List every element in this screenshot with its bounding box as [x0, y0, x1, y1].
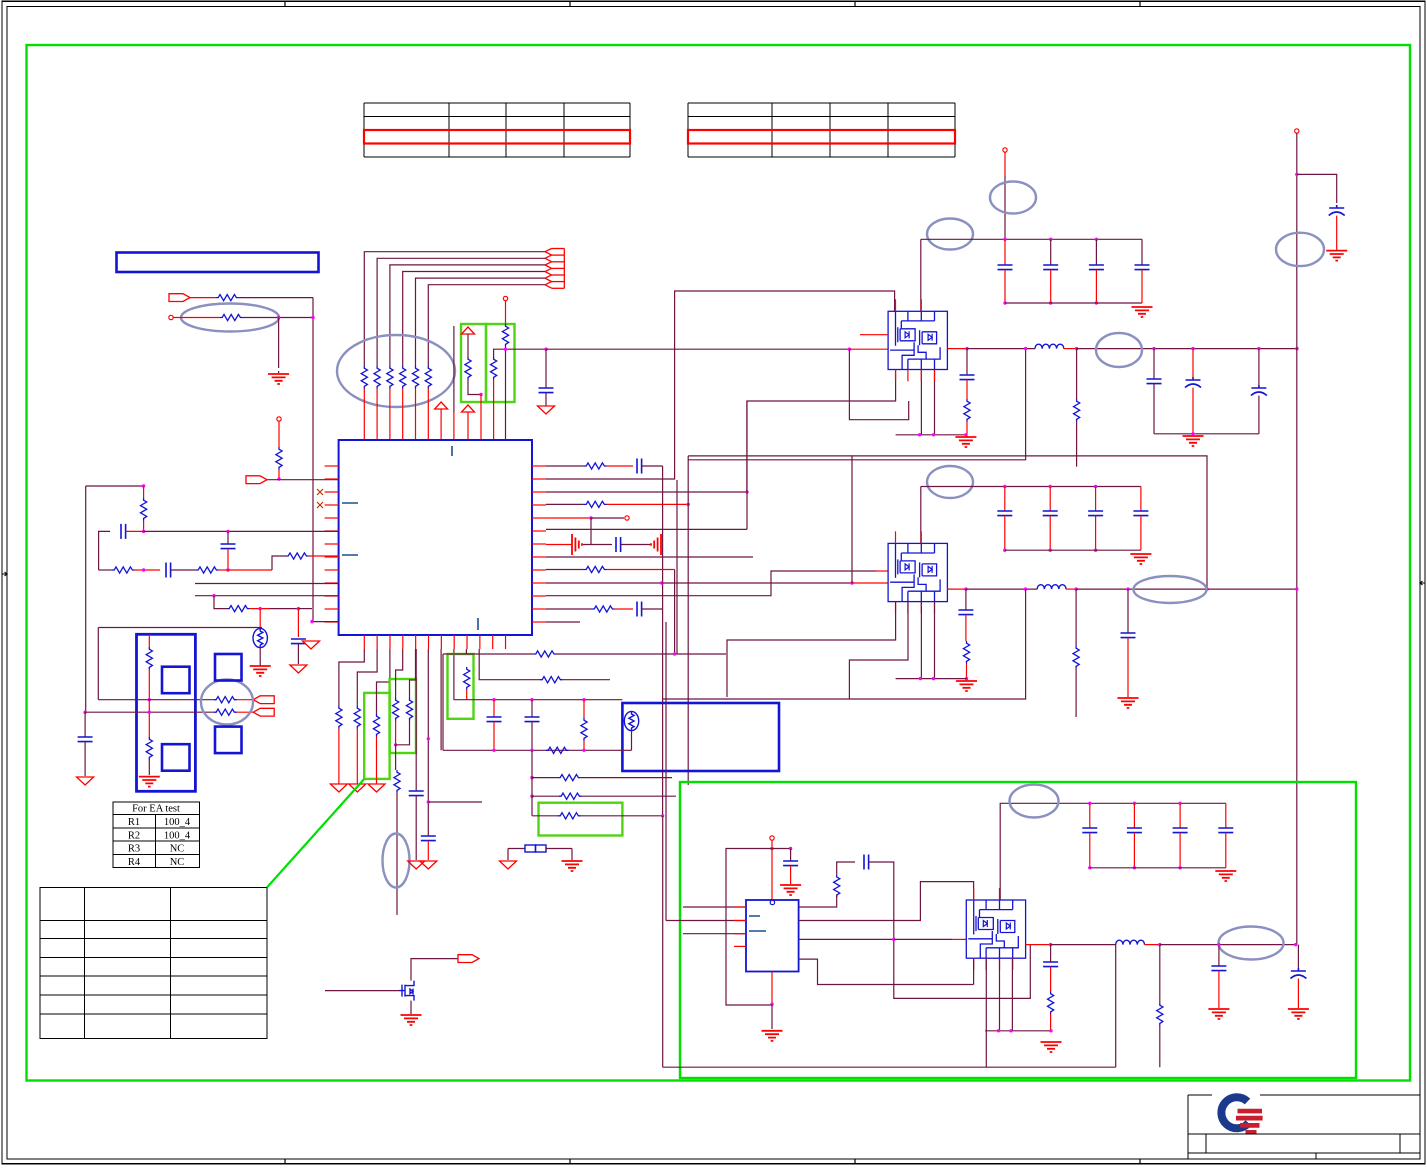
- earth ground G1: [268, 371, 289, 384]
- ground GA6: [368, 784, 385, 792]
- net D10: [465, 649, 467, 654]
- net R6 b: [583, 544, 612, 546]
- net SW1 to block: [849, 348, 888, 350]
- bus wire B3: [390, 265, 545, 366]
- junction n58: [892, 938, 895, 941]
- IC U4 top notch: [770, 900, 774, 904]
- junction n40: [394, 743, 397, 746]
- inductor L3: [1116, 940, 1145, 944]
- junction n4: [479, 393, 482, 396]
- ground GB2: [250, 666, 271, 676]
- wire b3c2 bot: [1179, 833, 1181, 868]
- wire R43 dn: [1075, 669, 1077, 718]
- net blk2 brow: [896, 678, 967, 680]
- junction n18: [850, 581, 853, 584]
- junction n64: [997, 1029, 1000, 1032]
- wire TH1 to gnd: [259, 648, 261, 666]
- junction n38: [919, 677, 922, 680]
- blue title box: [117, 253, 319, 273]
- net u4 in1: [683, 906, 746, 908]
- resistor RN2: [374, 366, 380, 389]
- wire T1 to R11: [173, 317, 220, 319]
- svg-text:100_4: 100_4: [164, 830, 191, 841]
- net blk1 b1: [747, 370, 896, 493]
- net y654 b: [506, 653, 533, 655]
- junction b3s1: [1133, 866, 1136, 869]
- net fuse b: [546, 848, 572, 850]
- capacitor C17: [421, 836, 436, 841]
- resistor R53: [393, 698, 399, 721]
- junction n9: [226, 568, 229, 571]
- resistor R52: [373, 714, 379, 737]
- highlight box HB1b: [486, 324, 515, 402]
- svg-text:For EA test: For EA test: [132, 804, 180, 815]
- wire b1c0 top: [1004, 239, 1006, 265]
- mosfet block U2: [888, 311, 947, 369]
- net blk1 brow: [896, 434, 966, 436]
- wire PW3 stub: [467, 412, 469, 440]
- buck3 cap gnd rail: [1090, 867, 1226, 869]
- wire out cap b: [1297, 945, 1299, 968]
- sheet zone tick top x=570: [569, 1, 571, 6]
- wire R23 to IC: [309, 555, 339, 557]
- wire R41 dn: [1076, 422, 1078, 467]
- highlight ellipse E7: [927, 466, 973, 498]
- junction n2b: [745, 490, 748, 493]
- net FB4: [852, 456, 1207, 589]
- highlight ellipse E12: [1219, 927, 1284, 960]
- ground GB7: [1130, 554, 1151, 564]
- net D6: [427, 649, 429, 836]
- title block frame: [1188, 1095, 1420, 1159]
- wire r81 dn: [1050, 1014, 1052, 1031]
- net FB3: [688, 349, 1025, 460]
- junction n19: [848, 348, 851, 351]
- wire b3c1 top: [1133, 803, 1135, 828]
- sheet zone tick left: [2, 572, 7, 576]
- junction b3s2: [1178, 866, 1181, 869]
- power flag PW2: [462, 327, 475, 334]
- junction b3r2: [1178, 802, 1181, 805]
- wire b1c1 bot: [1050, 270, 1052, 303]
- resistor R30: [584, 463, 607, 469]
- net D1: [339, 649, 364, 706]
- wire n16 down: [590, 518, 592, 545]
- junction n29: [964, 433, 967, 436]
- resistor R72: [146, 737, 152, 760]
- IC U1 bottom pins: [364, 635, 505, 649]
- net u4 in2: [666, 920, 746, 922]
- net y654 c: [556, 653, 726, 655]
- net row y570 c: [171, 569, 196, 571]
- resistor R10: [216, 295, 239, 301]
- wire b2c3 bot: [1140, 516, 1142, 551]
- terminal T7: [770, 836, 774, 840]
- net x662 long: [662, 654, 664, 816]
- resistor R73: [214, 709, 237, 715]
- wire n27 down: [1258, 349, 1260, 385]
- net R5: [546, 528, 747, 530]
- wire c26 dn: [1297, 979, 1299, 1008]
- junction n54: [83, 711, 86, 714]
- resistor R57: [534, 651, 557, 657]
- wire R51 dn: [356, 729, 358, 785]
- net R4 b: [591, 517, 624, 519]
- wire r82 dn: [1159, 1026, 1161, 1068]
- logo stripes: [1236, 1109, 1263, 1134]
- junction n46: [582, 698, 585, 701]
- capacitor C7: [616, 537, 621, 552]
- junction n16: [589, 516, 592, 519]
- resistor R56: [464, 667, 470, 690]
- ground GA4: [330, 784, 347, 792]
- highlight box HB1a: [461, 324, 486, 402]
- net R9 c: [852, 582, 889, 584]
- ground GB8: [956, 681, 977, 691]
- buck1 out c: [1064, 348, 1077, 350]
- net R8 down: [674, 569, 676, 571]
- capacitor CB21: [1043, 511, 1058, 516]
- buck2 out b: [966, 588, 1037, 590]
- net y777 b: [581, 777, 673, 779]
- resistor R51: [354, 706, 360, 729]
- wire n24 down: [1076, 349, 1078, 399]
- resistor R22: [196, 567, 219, 573]
- highlight ellipse E2: [337, 335, 455, 407]
- sheet zone tick top x=285: [284, 1, 286, 6]
- capacitor C22: [783, 861, 798, 866]
- net vertical x313: [312, 298, 314, 622]
- resistor R62: [559, 793, 582, 799]
- net blk2 fb: [663, 589, 1026, 699]
- junction n49: [582, 749, 585, 752]
- capacitor CB23: [1133, 511, 1148, 516]
- wire P1 to R10: [190, 297, 216, 299]
- ground GB6: [1326, 251, 1347, 261]
- bus wire B5: [416, 278, 546, 366]
- capacitor C16: [1121, 633, 1136, 638]
- wire b3c0 bot: [1089, 833, 1091, 868]
- net y796 b: [582, 795, 677, 797]
- ground GA7: [420, 861, 437, 869]
- wire cap c19: [493, 700, 495, 717]
- resistor R55: [406, 698, 412, 721]
- capacitor CB13: [1135, 265, 1150, 270]
- resistor R42: [963, 641, 969, 664]
- wire C1 to gnd: [545, 393, 547, 406]
- buck2 input rail: [921, 486, 1141, 488]
- wire T5 down b: [1004, 176, 1006, 239]
- net D4: [396, 649, 403, 698]
- capacitor CB20: [997, 511, 1012, 516]
- net D7: [415, 649, 417, 791]
- fuse F1: [525, 845, 546, 852]
- wire R11 to junction: [243, 317, 314, 319]
- capacitor C25: [1211, 966, 1226, 971]
- wire n35 down: [1127, 589, 1129, 633]
- wire tr top: [148, 634, 150, 647]
- resistor R43: [1073, 646, 1079, 669]
- junction n59: [770, 1003, 773, 1006]
- capacitor C8: [637, 602, 642, 617]
- wire n8 to C3: [227, 531, 229, 544]
- ground GA8: [408, 861, 425, 869]
- net D5 b: [396, 721, 410, 745]
- IC U1: [339, 440, 532, 635]
- capacitor CB30: [1082, 828, 1097, 833]
- net SW1 down: [849, 349, 908, 420]
- highlight ellipse E9: [383, 834, 410, 888]
- wire b2c0 top: [1004, 487, 1006, 512]
- wire RN5 to IC: [415, 389, 417, 441]
- ground GB13: [780, 885, 801, 895]
- wire n12 to TH1: [259, 609, 261, 628]
- capacitor C19: [487, 717, 502, 722]
- capacitor CB33: [1218, 828, 1233, 833]
- wire C3 to n9: [227, 549, 229, 570]
- bus wire B6: [428, 285, 545, 366]
- net prim1: [98, 699, 214, 701]
- resistor R12: [276, 447, 282, 470]
- capacitor C1: [539, 388, 554, 393]
- net R0 c: [642, 465, 663, 467]
- terminal T3: [503, 296, 507, 300]
- junction b2s0: [1003, 549, 1006, 552]
- IC U1 right pins: [532, 466, 546, 622]
- resistor R61: [558, 775, 581, 781]
- net R3 a: [546, 503, 584, 505]
- net row y570 b: [135, 569, 161, 571]
- wire C16 dn: [1127, 638, 1129, 697]
- net row y570 a: [99, 569, 112, 571]
- wire R12 to pin: [278, 470, 280, 480]
- winding square W1: [162, 667, 190, 694]
- net u4 out1: [799, 882, 974, 921]
- capacitor C12 pol: [1185, 377, 1201, 388]
- junction b2r2: [1094, 485, 1097, 488]
- capacitor C15: [958, 610, 973, 615]
- sheet zone tick top x=855: [854, 1, 856, 6]
- wire b1c1 top: [1050, 239, 1052, 265]
- highlight ellipse E4: [927, 219, 973, 250]
- junction n53: [148, 698, 151, 701]
- junction n20: [918, 433, 921, 436]
- net R8 b: [607, 569, 675, 571]
- wire C13 dn: [1258, 396, 1260, 434]
- wire n34 down: [1075, 589, 1077, 646]
- net R11r a: [546, 608, 592, 610]
- net blk3 b4: [1011, 959, 1013, 1031]
- junction b1s1: [1049, 301, 1052, 304]
- net R6 a: [546, 544, 572, 546]
- net blk2 b1: [727, 602, 896, 697]
- junction n11: [212, 594, 215, 597]
- net TL top: [98, 627, 262, 629]
- junction n12: [259, 607, 262, 610]
- wire R50 dn: [338, 729, 340, 785]
- winding square W4: [215, 727, 242, 754]
- capacitor C21: [78, 737, 93, 742]
- junction n2: [311, 316, 314, 319]
- buck1 cap gnd rail: [1005, 302, 1142, 304]
- thermistor TH1: [253, 628, 267, 647]
- net fuse gnd l: [507, 849, 509, 861]
- sheet zone tick right: [1420, 581, 1425, 585]
- junction nFB4: [1205, 587, 1208, 590]
- junction n21: [932, 433, 935, 436]
- wire c22 a: [790, 849, 792, 862]
- wire C1 up: [545, 349, 547, 388]
- junction b1s0: [1003, 301, 1006, 304]
- net L1 top: [86, 485, 144, 487]
- U5 red pin stubs: [974, 888, 1013, 970]
- junction n66: [1049, 1029, 1052, 1032]
- capacitor CB11: [1043, 265, 1058, 270]
- wire C17 dn: [427, 841, 429, 860]
- terminal T6: [1295, 129, 1299, 133]
- highlight box HB5: [539, 803, 623, 836]
- junction n32: [964, 587, 967, 590]
- ground GB5: [1183, 436, 1204, 446]
- junction n65: [1009, 1029, 1012, 1032]
- resistor R14: [491, 357, 497, 380]
- wire gpio in: [267, 479, 339, 481]
- ground GB3: [1132, 307, 1153, 317]
- svg-text:R1: R1: [128, 817, 140, 828]
- wire b3c0 top: [1089, 803, 1091, 828]
- highlight ellipse E11: [1010, 785, 1059, 818]
- svg-text:100_4: 100_4: [164, 817, 191, 828]
- terminal T5: [1003, 148, 1007, 152]
- net R2: [546, 491, 747, 493]
- U3 red pin stubs: [896, 531, 935, 613]
- IC U1 pin1 marks: [342, 446, 478, 630]
- junction n60: [1049, 943, 1052, 946]
- input arrow P2: [246, 476, 267, 484]
- power flag PW4: [303, 641, 320, 649]
- net c22 br: [772, 848, 791, 850]
- net blk2 b4: [934, 602, 936, 679]
- branch to C14: [1297, 174, 1337, 203]
- sheet zone tick top x=1140: [1139, 1, 1141, 6]
- buck1 out d: [1077, 348, 1297, 350]
- net D2: [357, 649, 377, 706]
- svg-text:NC: NC: [170, 857, 185, 868]
- net comp b: [869, 862, 1031, 998]
- net blk3 brow: [985, 1030, 1051, 1032]
- capacitor C3: [221, 544, 236, 549]
- ground GB12: [401, 1015, 422, 1025]
- junction n55: [148, 711, 151, 714]
- net u4 out2c: [952, 938, 966, 940]
- net D9: [453, 649, 455, 700]
- net x662 b: [662, 816, 664, 1067]
- net L1 vertical: [85, 486, 87, 712]
- junction n50: [530, 776, 533, 779]
- ground GB10: [562, 861, 583, 871]
- junction n37: [965, 677, 968, 680]
- sheet zone tick bottom x=1140: [1139, 1159, 1141, 1164]
- highlight ellipse E1: [181, 304, 279, 332]
- buck3 green frame: [680, 782, 1356, 1078]
- junction n42: [427, 800, 430, 803]
- buck2 rail to block: [920, 487, 922, 544]
- junction n7: [142, 530, 145, 533]
- wire lamp dn: [631, 731, 633, 751]
- resistor R50: [336, 706, 342, 729]
- net blk2 b2: [849, 602, 908, 699]
- wire b1c3 bot: [1141, 270, 1143, 303]
- junction b1s2: [1095, 301, 1098, 304]
- net blk3 b1: [973, 959, 975, 985]
- right bus: [1296, 133, 1298, 945]
- net R0 down: [662, 466, 664, 654]
- highlight ellipse E10: [201, 680, 253, 725]
- capacitor C24: [1043, 962, 1058, 967]
- power flag PW1: [435, 402, 448, 409]
- junction n31: [1295, 173, 1298, 176]
- junction n57: [789, 847, 792, 850]
- revision table 1: [364, 103, 630, 157]
- junction b2r0: [1003, 485, 1006, 488]
- net D8: [440, 649, 442, 750]
- net row y622: [312, 621, 339, 623]
- capacitor C11: [1147, 379, 1162, 384]
- junction n10: [142, 568, 145, 571]
- junction n13: [297, 607, 300, 610]
- no-connect X2: [317, 502, 323, 508]
- net x532: [531, 750, 533, 816]
- wire R13 bend: [468, 380, 481, 395]
- junction n43: [673, 652, 676, 655]
- resistor R13: [465, 357, 471, 380]
- wire b3c3 top: [1225, 803, 1227, 828]
- wire n1 down: [278, 318, 280, 369]
- junction b2s1: [1049, 549, 1052, 552]
- buck3 rail up: [1115, 945, 1117, 1068]
- buck2 out a: [947, 588, 966, 590]
- net row y596: [195, 595, 339, 597]
- lamp DS1: [624, 711, 638, 730]
- wire b3c2 top: [1179, 803, 1181, 828]
- capacitor C2: [121, 524, 126, 539]
- resistor R20: [141, 498, 147, 521]
- net blk1 b3: [934, 370, 936, 435]
- wire R40 gnd: [966, 422, 968, 438]
- junction n47: [492, 749, 495, 752]
- ground GA9: [500, 861, 517, 869]
- wire b2c1 top: [1049, 487, 1051, 512]
- wire b2c1 bot: [1049, 516, 1051, 551]
- buck1 out a: [947, 348, 967, 350]
- wire b1c0 bot: [1004, 270, 1006, 303]
- net row y531 to IC: [144, 530, 339, 532]
- svg-text:R4: R4: [128, 857, 141, 868]
- net R9 a: [546, 582, 662, 584]
- sheet zone tick bottom x=855: [854, 1159, 856, 1164]
- net R9 b: [662, 582, 852, 584]
- capacitor C10: [960, 375, 975, 380]
- net R3 b: [607, 503, 689, 505]
- wire C18 dn: [415, 796, 417, 860]
- wire out cap a: [1218, 945, 1220, 966]
- rail y700: [454, 699, 622, 701]
- resistor R71: [214, 697, 237, 703]
- ground GS2: [651, 534, 661, 555]
- net q1 gate: [325, 990, 399, 992]
- resistor RN1: [361, 366, 367, 389]
- wire t7 ic: [771, 849, 773, 901]
